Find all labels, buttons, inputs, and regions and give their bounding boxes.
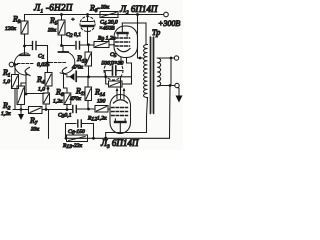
svg-text:1,2к: 1,2к: [1, 111, 11, 117]
node anode L1b: [60, 44, 63, 47]
capacitor C5 electrolytic: [104, 61, 123, 80]
triode L1b envelope: [60, 52, 75, 74]
resistor R1: [12, 65, 19, 110]
transformer secondary winding: [157, 58, 161, 86]
node feedback right junction: [92, 137, 95, 140]
svg-text:33к: 33к: [100, 5, 110, 11]
wire C1 to grid2 / R4: [47, 46, 49, 73]
output tube L3 envelope: [110, 95, 131, 134]
wire cathode node to R4/R6 junction: [26, 93, 44, 95]
svg-text:130: 130: [97, 99, 106, 105]
resistor R11: [85, 77, 92, 109]
node at C1/R3: [23, 45, 26, 48]
wire anode line A bottom: [106, 132, 147, 134]
resistor R9: [94, 42, 115, 48]
transformer core: [150, 37, 153, 114]
wire secondary bottom: [158, 85, 175, 88]
triode L1a envelope: [14, 53, 28, 75]
anode L3: [115, 121, 126, 123]
node grid L1b junction: [46, 61, 48, 63]
svg-text:33к: 33к: [30, 127, 40, 133]
node cathode line C5: [104, 75, 107, 78]
svg-text:R121,2к: R121,2к: [87, 116, 107, 123]
node C2/R9/R10/C4: [87, 43, 90, 46]
resistor R13: [67, 135, 88, 142]
resistor R2: [17, 83, 26, 110]
triode L1a cathode: [25, 68, 30, 76]
svg-text:+: +: [71, 17, 75, 23]
svg-text:33к: 33к: [47, 28, 57, 34]
svg-text:С1: С1: [38, 54, 45, 61]
wire secondary bottom to feedback line: [169, 86, 172, 139]
svg-text:1,0: 1,0: [38, 87, 45, 93]
capacitor C3: [73, 106, 95, 113]
node junction on rail at transformer feed: [136, 13, 139, 16]
svg-text:470к: 470к: [70, 96, 81, 102]
grids L3: [112, 107, 128, 109]
resistor R10: [85, 45, 92, 77]
capacitor C2: [76, 42, 94, 50]
svg-text:С30,1: С30,1: [58, 113, 72, 120]
terminal output bottom: [175, 83, 179, 87]
triode L1b grid: [50, 62, 67, 64]
node cathode line R10/R11: [87, 75, 90, 78]
svg-text:×450В: ×450В: [99, 26, 115, 32]
svg-text:+300В: +300В: [158, 19, 180, 28]
svg-text:С2 0,1: С2 0,1: [66, 32, 81, 39]
cathode L2: [118, 49, 131, 52]
resistor R5: [58, 15, 65, 46]
capacitor C1: [25, 42, 48, 50]
transformer primary winding: [143, 45, 147, 98]
wire bottom bus: [13, 109, 29, 111]
wire input to grid: [14, 64, 18, 66]
wire bus drop to feedback node: [48, 110, 50, 139]
svg-text:R13-22к: R13-22к: [62, 143, 82, 150]
resistor R4: [45, 73, 52, 94]
terminal +300V: [164, 12, 169, 17]
terminal output top: [174, 56, 178, 60]
node junction on rail at C4: [86, 13, 89, 16]
wire C2 line from anode L1b: [62, 45, 75, 47]
node R2 bottom: [20, 108, 23, 111]
wire +300V feed to primary tap: [138, 15, 143, 59]
svg-text:120к: 120к: [5, 26, 16, 32]
cathode bias line with cap to ground: [67, 71, 132, 81]
wire tap vertical: [170, 58, 172, 86]
resistor R6: [64, 93, 71, 110]
wire primary bottom to line A: [147, 98, 148, 133]
node input/R1 junction: [14, 63, 16, 65]
resistor R14: [106, 77, 132, 87]
node junction on rail at R5: [60, 13, 63, 16]
resistor R12: [95, 106, 110, 113]
resistor R8 on rail: [100, 12, 118, 18]
node cathode L1a: [25, 93, 28, 96]
triode L1b cathode: [62, 68, 67, 76]
ground arrow at output: [176, 88, 183, 103]
ground arrow under R2: [18, 110, 24, 121]
primary tap node: [139, 57, 142, 60]
node lower-left resistor bottom: [45, 108, 48, 111]
cathode L3: [114, 100, 128, 103]
wire feedback line B: [66, 137, 170, 139]
svg-text:470к: 470к: [72, 65, 83, 71]
triode L1a grid: [18, 63, 34, 65]
svg-text:1,0: 1,0: [3, 79, 10, 85]
wire cathode L1b to R6: [64, 73, 68, 93]
wire cathode L2 pins down to bias line: [120, 57, 122, 61]
anode L2: [118, 32, 128, 34]
node after C3: [87, 108, 90, 111]
resistor R7: [29, 107, 43, 114]
resistor lower-left (inverter load): [43, 93, 50, 110]
wire cathode L1a down: [25, 73, 27, 95]
svg-text:R9 1,2к: R9 1,2к: [97, 36, 116, 43]
wire anode L1b to R5: [62, 46, 64, 53]
triode L1b anode: [59, 51, 69, 53]
wire top supply rail: [25, 14, 164, 16]
capacitor C6: [66, 120, 94, 138]
node R6 bottom: [66, 108, 69, 111]
grids L2: [116, 37, 130, 39]
svg-text:500,0×30: 500,0×30: [102, 61, 124, 67]
wire anode L2 to primary top: [122, 22, 146, 24]
output tube L2 envelope: [114, 26, 138, 58]
node R4 bottom: [47, 87, 50, 90]
wire secondary top to terminal: [158, 57, 175, 59]
svg-text:1,2к: 1,2к: [53, 99, 63, 105]
svg-text:Тр: Тр: [152, 28, 160, 37]
wire anode to R3 node: [24, 46, 26, 55]
resistor R3: [21, 15, 28, 47]
svg-text:R8-: R8-: [89, 4, 100, 15]
input terminal: [9, 62, 14, 67]
capacitor C4 electrolytic: [80, 15, 95, 45]
heater pins L3 with arrows: [116, 91, 118, 100]
triode L1a anode: [20, 54, 30, 56]
